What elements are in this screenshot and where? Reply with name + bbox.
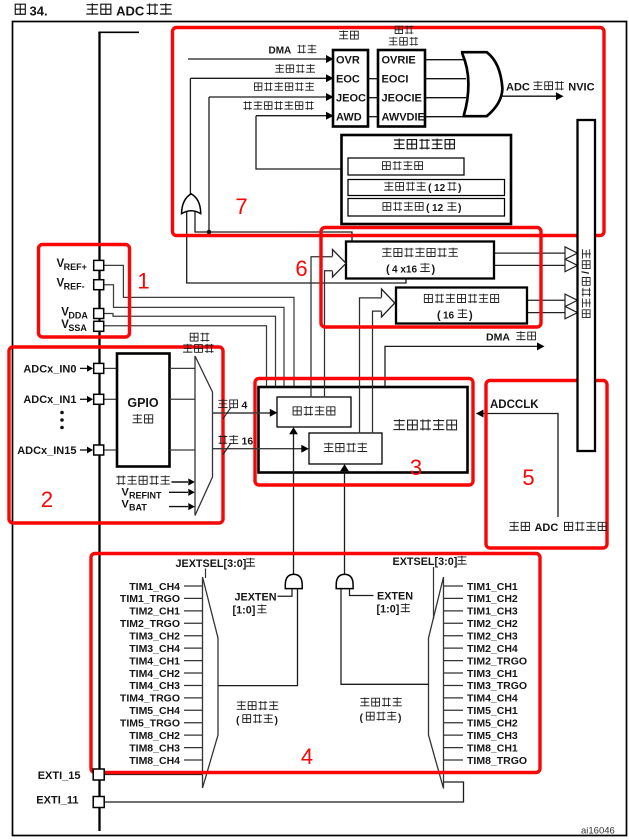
address/data bus bar 地址/数据总线 (578, 120, 596, 451)
svg-text:3: 3 (410, 455, 422, 480)
injected trigger mux trapezoid JEXTSEL (203, 577, 219, 788)
svg-text:OVR: OVR (336, 55, 360, 67)
wire EOC riser to OR gate (189, 78, 191, 195)
svg-text:TIM1_CH3: TIM1_CH3 (467, 606, 518, 618)
svg-text:TIM3_CH4: TIM3_CH4 (129, 643, 180, 655)
red annotation box 2 (9, 347, 223, 523)
wire TIM5_CH4 dash (184, 709, 203, 711)
hollow arrow into injected register (333, 250, 347, 278)
label 标志 (flags) (339, 30, 358, 39)
svg-text:TIM1_CH1: TIM1_CH1 (467, 581, 518, 593)
lower threshold box 阈值下限 (12 位) (348, 199, 505, 217)
svg-text:12: 12 (434, 183, 446, 194)
wires squares to GPIO box (103, 367, 117, 369)
svg-text:[1:0]: [1:0] (233, 605, 256, 617)
svg-text:TIM2_CH3: TIM2_CH3 (467, 631, 518, 643)
wire segments data buses inside converter (310, 386, 312, 398)
label 启动触发 (规则组) (360, 697, 402, 706)
svg-text:TIM1_CH4: TIM1_CH4 (129, 581, 180, 593)
red annotation box 7 (173, 28, 605, 236)
wire VREF+ supply (104, 265, 295, 387)
arrow ADCx_IN1 (80, 398, 87, 400)
svg-text:): ) (458, 182, 462, 194)
rail connection squares (94, 260, 104, 270)
svg-text:ADCCLK: ADCCLK (490, 399, 539, 411)
arrow ADCx_IN15 (80, 449, 87, 451)
wire TIM8_CH4 dash (184, 759, 203, 761)
svg-text:REF-: REF- (64, 282, 85, 292)
arrowhead into OVR (326, 55, 334, 63)
wires regular register to bus (527, 299, 566, 301)
svg-text:OVRIE: OVRIE (382, 55, 416, 67)
svg-text:(: ( (437, 310, 441, 322)
svg-text:TIM2_TRGO: TIM2_TRGO (120, 618, 180, 630)
wire injected trigger segment inside converter (293, 433, 295, 474)
wire AWD label line (256, 115, 327, 117)
label 多达 4 (218, 399, 237, 408)
wire EOC label line (190, 77, 327, 79)
wire TIM3_TRGO dash (444, 684, 463, 686)
wire DMA request (385, 346, 537, 387)
wire VREF- supply (103, 285, 284, 387)
svg-text:AWD: AWD (336, 112, 362, 124)
title figure label 图 34 (15, 4, 25, 14)
wire TIM8_TRGO dash (444, 759, 463, 761)
wire TIM1_TRGO dash (184, 597, 203, 599)
svg-text:6: 6 (295, 256, 307, 281)
svg-text:/: / (579, 271, 591, 274)
GPIO port box (117, 354, 170, 467)
label 注入转换结束 (254, 82, 314, 91)
label 来自 ADC 预分频器 (509, 521, 529, 530)
label 中断 使能位 (interrupt enable) (395, 26, 413, 35)
svg-text:TIM8_CH4: TIM8_CH4 (129, 755, 180, 767)
svg-text:DMA: DMA (486, 331, 510, 343)
svg-text:ADCx_IN0: ADCx_IN0 (23, 363, 76, 375)
svg-text:REFINT: REFINT (129, 490, 162, 500)
svg-text:JEXTEN: JEXTEN (235, 592, 277, 604)
wire TIM8_CH1 dash (444, 747, 463, 749)
analog rail vertical wire (98, 32, 100, 831)
arrowhead into EOC (326, 74, 334, 82)
wire ADCCLK (477, 414, 559, 518)
svg-text:34.: 34. (30, 4, 48, 19)
svg-text:2: 2 (41, 487, 53, 512)
svg-text:REF+: REF+ (64, 262, 87, 272)
wire JEOC riser (208, 97, 210, 233)
wire TIM2_TRGO dash (184, 622, 203, 624)
wire ADC interrupt output (502, 95, 557, 97)
connector wires between flag and IE boxes (368, 78, 378, 80)
junction dot JEOC/223 wire (207, 230, 212, 235)
svg-text:EXTSEL[3:0]: EXTSEL[3:0] (393, 556, 458, 568)
wire TIM1_CH4 dash (184, 585, 203, 587)
injected data register box 注入数据寄存器 (346, 242, 494, 279)
svg-text:(: ( (360, 712, 364, 724)
wire AWD riser (256, 116, 348, 169)
arrow VREFINT into mux (169, 491, 188, 493)
svg-text:ai16046: ai16046 (581, 826, 615, 837)
red annotation box 4 (91, 554, 540, 773)
arrow temp sensor into mux (172, 481, 189, 483)
red annotation box 5 (486, 381, 607, 549)
svg-text:TIM2_CH4: TIM2_CH4 (467, 643, 518, 655)
arrowhead ADC interrupt (556, 92, 564, 100)
stub JEXTSEL label to mux (205, 569, 207, 579)
svg-text:AWVDIE: AWVDIE (382, 112, 425, 124)
svg-text:TIM4_CH1: TIM4_CH1 (129, 655, 180, 667)
wire TIM4_CH3 dash (184, 684, 203, 686)
wire TIM2_CH1 dash (184, 610, 203, 612)
svg-text:): ) (469, 310, 473, 322)
svg-text:EOC: EOC (336, 74, 360, 86)
svg-text:[1:0]: [1:0] (377, 604, 400, 616)
title text 单个 ADC 框图 (86, 3, 111, 15)
or-gate U1 (flag combine, pointing up) (182, 194, 201, 214)
or-gate U2 ADC interrupt (pointing right) (462, 52, 502, 116)
svg-text:(: ( (426, 202, 430, 214)
wire up-to-16 from mux to regular channels (213, 448, 303, 450)
svg-text:JEXTSEL[3:0]: JEXTSEL[3:0] (176, 558, 247, 570)
wire TIM4_CH1 dash (184, 660, 203, 662)
arrowhead ADCCLK into converter (476, 410, 484, 418)
label 启动触发 (注入组) (237, 701, 279, 710)
wire OR gate right leg to injected register top (195, 210, 352, 242)
analog mux trapezoid (195, 356, 213, 516)
wire regular mux output to EXTEN gate (341, 589, 429, 684)
arrowhead injected trigger into injected channels (289, 427, 298, 434)
wire injected mux output to JEXTEN gate (218, 589, 298, 686)
wire TIM8_CH2 dash (184, 734, 203, 736)
red annotation box 3 (255, 379, 473, 486)
flag status box OVR/EOC/JEOC/AWD (333, 50, 368, 127)
wires IE box to OR gate (425, 59, 466, 61)
bus-width slash on up-to-4 wire (223, 407, 231, 419)
upper threshold box 阈值上限 (12位) (348, 180, 505, 196)
wire TIM2_CH3 dash (444, 635, 463, 637)
svg-text:TIM5_CH1: TIM5_CH1 (467, 705, 518, 717)
svg-text:TIM4_TRGO: TIM4_TRGO (120, 693, 180, 705)
svg-text:TIM5_CH4: TIM5_CH4 (129, 705, 180, 717)
svg-text:TIM3_CH1: TIM3_CH1 (467, 668, 518, 680)
svg-text:BAT: BAT (129, 503, 147, 513)
wire injected trigger riser (293, 434, 295, 576)
svg-text:): ) (275, 714, 279, 726)
wire TIM5_CH3 dash (444, 734, 463, 736)
svg-text:EXTEN: EXTEN (377, 591, 413, 603)
wire TIM5_TRGO dash (184, 722, 203, 724)
svg-text:1: 1 (137, 269, 149, 294)
svg-text:TIM5_TRGO: TIM5_TRGO (120, 718, 180, 730)
svg-text:ADCx_IN15: ADCx_IN15 (17, 445, 76, 457)
svg-text:TIM3_CH2: TIM3_CH2 (129, 631, 180, 643)
svg-text:ADC: ADC (534, 522, 558, 534)
svg-text:): ) (432, 264, 436, 276)
svg-text:(: ( (386, 264, 390, 276)
stub EXTSEL label to mux (433, 567, 435, 619)
ellipsis dots between inputs (60, 411, 64, 415)
and-gate EXTEN (336, 574, 353, 588)
svg-text:DDA: DDA (68, 311, 88, 321)
svg-text:TIM5_CH3: TIM5_CH3 (467, 730, 518, 742)
arrow VBAT into mux (169, 506, 188, 508)
arrowhead into injected channels (270, 409, 278, 417)
wire VDDA supply (104, 314, 276, 388)
wire OR gate left leg to injected register bottom (187, 210, 406, 283)
wire TIM4_TRGO dash (184, 697, 203, 699)
red annotation box 1 (39, 245, 130, 338)
arrowhead into JEOC (326, 93, 334, 101)
svg-text:7: 7 (235, 194, 247, 219)
arrowhead regular trigger into regular channels (340, 464, 349, 471)
svg-text:(: ( (428, 182, 432, 194)
svg-text:DMA: DMA (269, 45, 292, 56)
wire EXTEN gate right input dash (350, 589, 374, 596)
wire TIM5_CH1 dash (444, 709, 463, 711)
svg-text:TIM8_CH2: TIM8_CH2 (129, 730, 180, 742)
regular channels box 规则通道 (309, 433, 382, 464)
wire TIM4_CH2 dash (184, 672, 203, 674)
svg-text:4: 4 (242, 400, 248, 412)
svg-text:TIM2_CH1: TIM2_CH1 (129, 606, 180, 618)
svg-text:EOCI: EOCI (382, 74, 409, 86)
analog watchdog box 模拟看门狗 (342, 135, 512, 224)
wire EXTI_15 (103, 774, 203, 776)
wire VSSA supply (104, 326, 267, 387)
svg-text:(: ( (236, 714, 240, 726)
wire regular trigger riser (344, 471, 346, 576)
wire TIM3_CH2 dash (184, 635, 203, 637)
svg-text:ADCx_IN1: ADCx_IN1 (23, 394, 76, 406)
svg-text:GPIO: GPIO (127, 396, 159, 410)
svg-text:16: 16 (443, 310, 455, 321)
svg-text:EXTI_11: EXTI_11 (36, 795, 78, 807)
svg-text:16: 16 (242, 436, 254, 448)
wire TIM3_CH4 dash (184, 647, 203, 649)
wire up-to-4 from mux to injected channels (213, 412, 271, 414)
wire regular trigger segment inside converter (344, 469, 346, 474)
svg-text:TIM2_CH2: TIM2_CH2 (467, 618, 518, 630)
svg-text:SSA: SSA (68, 323, 87, 333)
wire TIM1_CH1 dash (444, 585, 463, 587)
svg-text:ADC: ADC (116, 4, 145, 19)
svg-text:EXTI_15: EXTI_15 (38, 770, 81, 782)
svg-text:TIM2_TRGO: TIM2_TRGO (467, 655, 527, 667)
arrowhead into regular channels (301, 445, 309, 453)
hollow arrow into regular register (382, 289, 395, 317)
wire TIM2_TRGO dash (444, 660, 463, 662)
wire JEOC label line (209, 96, 327, 98)
label 模拟看门狗 (394, 139, 455, 150)
open arrowheads injected to bus (565, 247, 578, 259)
label 转换结束 (275, 64, 315, 73)
arrowhead into AWD (326, 112, 334, 120)
wire TIM2_CH2 dash (444, 622, 463, 624)
injected channels box 注入通道 (277, 397, 351, 427)
svg-text:TIM3_TRGO: TIM3_TRGO (467, 680, 527, 692)
wire TIM1_CH2 dash (444, 597, 463, 599)
wire TIM4_CH4 dash (444, 697, 463, 699)
wires GPIO to analog mux (170, 367, 197, 369)
interrupt enable box (378, 50, 425, 127)
svg-text:JEOC: JEOC (336, 93, 366, 105)
svg-text:TIM8_TRGO: TIM8_TRGO (467, 755, 527, 767)
regular data register box 规则数据寄存器 (396, 288, 527, 324)
svg-text:4: 4 (301, 744, 313, 769)
A/D converter box 模数转换器 (259, 387, 468, 473)
svg-text:TIM1_CH2: TIM1_CH2 (467, 593, 518, 605)
wire TIM8_CH3 dash (184, 747, 203, 749)
label 温度传感器 (temp sensor) (117, 475, 171, 484)
svg-text:TIM8_CH1: TIM8_CH1 (467, 742, 518, 754)
regular trigger mux trapezoid EXTSEL (429, 577, 444, 789)
wire regular data bus right line (373, 311, 382, 433)
svg-text:TIM4_CH4: TIM4_CH4 (467, 693, 518, 705)
wire TIM1_CH3 dash (444, 610, 463, 612)
arrow ADCx_IN0 (80, 367, 87, 369)
wire JEXTEN gate left input dash (278, 589, 293, 597)
svg-text:TIM4_CH2: TIM4_CH2 (129, 668, 180, 680)
svg-text:TIM1_TRGO: TIM1_TRGO (120, 593, 180, 605)
wire TIM3_CH1 dash (444, 672, 463, 674)
svg-text:12: 12 (432, 203, 444, 214)
svg-text:ADC: ADC (506, 81, 530, 93)
red annotation box 6 (321, 228, 541, 328)
svg-text:JEOCIE: JEOCIE (382, 93, 422, 105)
and-gate JEXTEN (285, 574, 302, 588)
label 模拟 复用器 (analog mux) (190, 333, 209, 342)
wire TIM2_CH4 dash (444, 647, 463, 649)
wire regular data bus left line (360, 298, 382, 433)
label 多达 16 (218, 435, 238, 444)
wire injected data bus left line (311, 257, 333, 397)
arrowhead DMA request (537, 342, 545, 350)
wire EXTI_11 (103, 782, 464, 802)
svg-text:): ) (398, 712, 402, 724)
wire TIM5_CH2 dash (444, 722, 463, 724)
label 模拟看门狗事件 (243, 101, 313, 110)
wire injected data bus right line (325, 271, 333, 397)
compare result box 比较结果 (348, 158, 464, 175)
bus-width slash on up-to-16 wire (223, 443, 231, 455)
wire DMA overrun label line (188, 58, 327, 60)
wires injected register to bus (494, 252, 566, 254)
svg-text:TIM8_CH3: TIM8_CH3 (129, 742, 180, 754)
svg-text:5: 5 (522, 465, 534, 490)
svg-text:TIM5_CH2: TIM5_CH2 (467, 718, 518, 730)
svg-text:TIM4_CH3: TIM4_CH3 (129, 680, 180, 692)
svg-text:NVIC: NVIC (568, 81, 594, 93)
open arrowheads regular to bus (565, 294, 578, 306)
svg-text:): ) (458, 202, 462, 214)
rail top stub wire (98, 31, 139, 33)
svg-text:4 x16: 4 x16 (392, 264, 417, 275)
